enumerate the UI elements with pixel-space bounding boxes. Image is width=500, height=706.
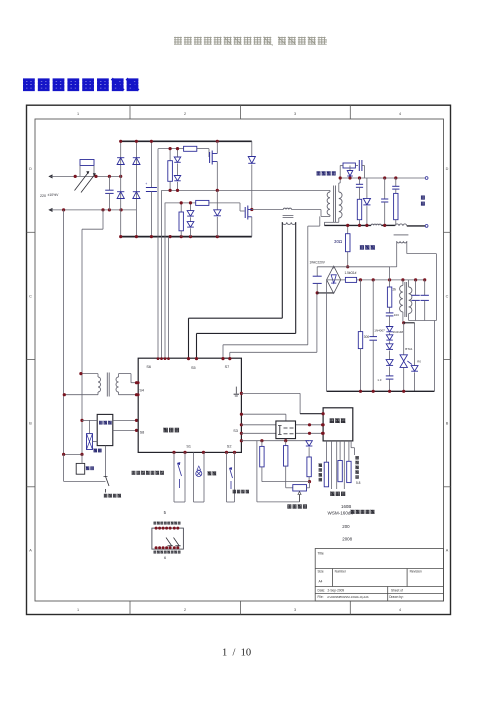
label power [208,471,217,475]
label vertical aux voltage [355,456,358,459]
svg-text:WSM-160dk: WSM-160dk [328,511,354,516]
output dot row top [339,176,342,179]
board bottom pin dots [172,451,175,454]
main transformer T1 primary [327,192,330,215]
svg-text:30Ω: 30Ω [334,239,343,244]
resistor R17 [338,461,342,482]
svg-text:File:: File: [318,595,324,599]
wire bottom edge to pot network [241,440,309,442]
svg-text:D: D [29,167,32,171]
svg-text:2: 2 [184,112,186,116]
gate resistor R4 lower [196,200,209,205]
output capacitor C6 and resistor R8 leg [395,178,397,186]
arc bridge negative drop wire [326,280,328,392]
board top pin dots [157,357,160,360]
AC input terminal N [49,208,52,211]
svg-text:2: 2 [184,608,186,612]
svg-text:±10%V: ±10%V [48,193,60,197]
zener ZD6 [389,333,391,335]
output rectifier diode D7 [349,166,351,171]
capacitor C8 [386,312,394,314]
snubber resistor R6 [343,163,355,168]
control transformer T2 left winding [81,373,98,375]
output dot row bottom [358,224,361,227]
svg-text:4: 4 [399,608,401,612]
gate zener ZD4 lower [187,222,194,228]
spark capacitor C12 [424,280,426,295]
wire board to opto top [241,413,286,415]
svg-text:Size: Size [318,570,324,574]
svg-text:1N4148: 1N4148 [393,330,404,334]
label duty cycle [330,492,345,496]
bus electrolytic capacitor C2 [150,141,152,187]
svg-text:BTA1: BTA1 [405,347,413,351]
main control board U1 [138,358,241,452]
pulse board left pin dots [322,412,325,415]
arc board AC wire [317,266,390,268]
IGBT Q1 upper [209,152,211,163]
sheet border inner frame [35,119,444,601]
output RC leg capacitor C4 and resistor R7 [359,178,361,184]
svg-text:4: 4 [399,112,401,116]
arc node wire [357,279,426,281]
svg-text:103: 103 [394,313,399,317]
mid rail to transformer primary [162,189,331,191]
arc board bottom rail [327,390,435,392]
upper gate drive wire [158,148,184,150]
remote connector S9 [152,528,184,549]
arc bridge rectifier B1 [327,266,341,293]
wire mains N down to fan circuit [63,210,65,455]
triac Q3 BTA1 [403,323,405,355]
bus junction dots [119,140,122,143]
svg-text:1#AC220V: 1#AC220V [310,260,326,264]
drain node wire to coupling transformer [252,209,283,211]
svg-text:A: A [446,549,449,553]
svg-text:S5: S5 [191,366,196,370]
arc board input capacitor C7 [316,267,318,276]
resistor R9 30ohm to arc board [347,225,349,233]
bridge diode D2 [133,158,140,165]
mid rail junction dots [169,189,172,192]
fan M1 [76,463,85,474]
output terminal negative [425,225,428,228]
pulse board side pin [350,441,352,448]
gate zener ZD1 upper [177,149,179,157]
label gas valve [94,449,102,453]
spark cap bottom rail [409,320,437,322]
svg-text:1: 1 [77,112,79,116]
L2 coupling winding [397,241,407,243]
resistor R15 [285,441,287,446]
torch switch loop [226,452,228,502]
bridge column right [135,141,137,236]
svg-text:1 / 10: 1 / 10 [222,648,251,659]
watermark notice text [174,37,271,45]
diode D11 [411,366,418,372]
wire aux down [64,453,82,455]
label main transformer [317,171,336,175]
HF secondary leg wires to main board S5 [281,222,283,318]
S9 bottom pin dots [155,546,158,549]
svg-text:3: 3 [294,112,296,116]
svg-text:Number: Number [335,570,347,574]
relay K1 coil resistor [80,160,94,166]
main transformer T1 secondary [339,192,342,218]
output negative wire [324,224,371,226]
svg-text:B: B [446,422,449,426]
arc node resistor R10 1.5k [327,279,346,281]
svg-text:3: 3 [294,608,296,612]
output diode leg D8 [366,178,368,198]
svg-text:1: 1 [77,608,79,612]
bridge diode D3 [117,192,124,199]
svg-text:!: ! [325,38,327,47]
diode D9 [386,344,393,350]
label torch switch [233,490,249,493]
svg-text:C: C [29,295,32,299]
svg-text:S7: S7 [225,365,230,369]
main transformer T1 core [333,186,335,223]
svg-text:Drawn by:: Drawn by: [389,595,403,599]
gate drive harness wires to S6 [157,149,159,359]
output positive wire [340,177,425,179]
svg-text:d:\2009MB\WSM-160dk dlj.ddb: d:\2009MB\WSM-160dk dlj.ddb [327,595,369,599]
gate zener ZD2 upper [174,176,181,181]
HF coupling transformer T3 primary [283,208,291,209]
capacitor C9 1.3n [386,375,394,377]
divider resistor R11 2k [389,267,391,280]
opto relay U2 [276,421,296,439]
wire relay aux down [102,210,104,229]
control transformer T2 right winding [116,377,119,392]
label arc ignition board [360,245,375,249]
board left pin dots [137,381,140,384]
ground symbol [235,387,237,394]
svg-text:Sheet of: Sheet of [391,588,403,592]
bridge column left [120,141,122,236]
S9 pin labels top [154,522,181,525]
label TIG/MMA switch [132,471,164,475]
svg-text:A: A [29,549,32,553]
resistor R12 300 [360,280,362,332]
bridge diode D4 [133,192,140,199]
svg-text:C: C [446,295,449,299]
svg-text:D: D [446,167,449,171]
zone dividers [27,105,451,614]
HF spark transformer T4 right winding [408,280,410,287]
IGBT Q2 lower [244,207,246,218]
DC bus positive rail [121,140,252,142]
svg-text:2k: 2k [393,288,397,292]
label after-weld gas switch [104,494,121,498]
svg-text:300: 300 [364,335,370,339]
gate-emitter resistor R5 lower [180,203,182,212]
label current adjust [287,504,307,508]
freewheel diode D5 upper [251,141,253,156]
capacitor C10 [372,280,374,337]
svg-text:S2: S2 [227,445,232,449]
zener ZD7 [306,441,313,446]
relay K1 contact [75,172,90,191]
spark capacitor C11 [415,280,417,295]
svg-text:Title: Title [318,552,324,556]
output capacitor leg C5 [384,178,386,199]
svg-text:1.5kΩ1#: 1.5kΩ1# [345,271,357,275]
sheet border outer frame [27,105,451,614]
triac node [402,321,405,324]
gate zener ZD3 lower [190,203,192,211]
svg-text:S3: S3 [233,429,238,433]
diode D10 [386,360,393,366]
svg-text:2-Sep-2009: 2-Sep-2009 [328,588,345,592]
svg-text:1N4007: 1N4007 [374,329,385,333]
title block [315,549,443,602]
after-weld gas switch [63,454,65,481]
svg-text:220: 220 [40,194,46,198]
S9 top pin dots [155,527,158,530]
zener ZD5 [386,327,393,332]
resistor R14 [261,441,263,447]
resistor R18 [347,461,351,482]
svg-text:,: , [271,38,273,47]
svg-text:R0: R0 [417,360,421,364]
HF spark transformer T4 left winding [402,280,404,286]
X capacitor C1 across mains [108,176,110,190]
power lamp loop [193,452,195,502]
ground wire to pulse board [241,392,300,394]
snubber node [339,166,341,179]
svg-text:S6: S6 [146,365,151,369]
output terminal positive [425,177,428,180]
svg-text:B: B [29,422,32,426]
lower gate drive wire [165,202,196,204]
snubber capacitor C3 [358,160,360,171]
svg-text:200: 200 [342,524,350,529]
gate-emitter resistor R3 upper [169,149,171,161]
mode switch loop S1 TIG/MMA [173,452,175,502]
AC input terminal L [49,175,52,178]
current potentiometer RP1 [286,487,293,489]
svg-text:A4: A4 [319,580,323,584]
svg-text:Revision: Revision [410,570,422,574]
svg-text:S8: S8 [140,431,145,435]
DC bus negative rail [121,236,252,238]
S9 pin labels bottom [154,551,181,554]
gas valve V1 [87,434,93,450]
primary bottom sense wires to control board S7 [319,216,321,226]
svg-text:1.3: 1.3 [377,378,382,382]
label vertical given [319,464,322,467]
page heading main circuit electrical schematic [23,79,138,91]
resistor R16 [324,462,328,487]
svg-text:S1: S1 [186,445,191,449]
svg-text:5: 5 [164,510,167,515]
gas valve board wires to main board [82,419,97,421]
svg-text:160B: 160B [341,504,351,509]
output inductor L1 [371,224,381,225]
HF coupling transformer T3 core [283,215,294,217]
HF spark transformer T4 core [404,282,406,317]
HF coupling transformer T3 secondary [282,222,295,224]
resistor R13 [307,457,311,477]
freewheel diode D6 lower [216,190,218,209]
junction dots input line [74,175,77,178]
label main control board [163,428,179,433]
svg-text:Date:: Date: [318,588,326,592]
S9 internal switches [166,538,172,546]
gas valve board [97,414,113,445]
gate resistor R2 upper [184,146,197,151]
control transformer T2 core [106,373,108,397]
wires to pulse board [241,424,276,426]
svg-text:+: + [145,182,147,186]
pulse board bottom pins [325,441,327,462]
svg-text:S4: S4 [139,388,144,392]
pulse board U3 [323,408,353,441]
board right pin dots [240,392,243,395]
svg-text:2008: 2008 [342,537,352,542]
transformer junction dots [79,372,82,375]
svg-text:5.8: 5.8 [356,481,361,485]
output inductor L2 with core [395,224,407,226]
svg-text:6: 6 [164,556,166,560]
label output vertical [421,196,425,200]
bridge diode D1 [117,158,124,165]
